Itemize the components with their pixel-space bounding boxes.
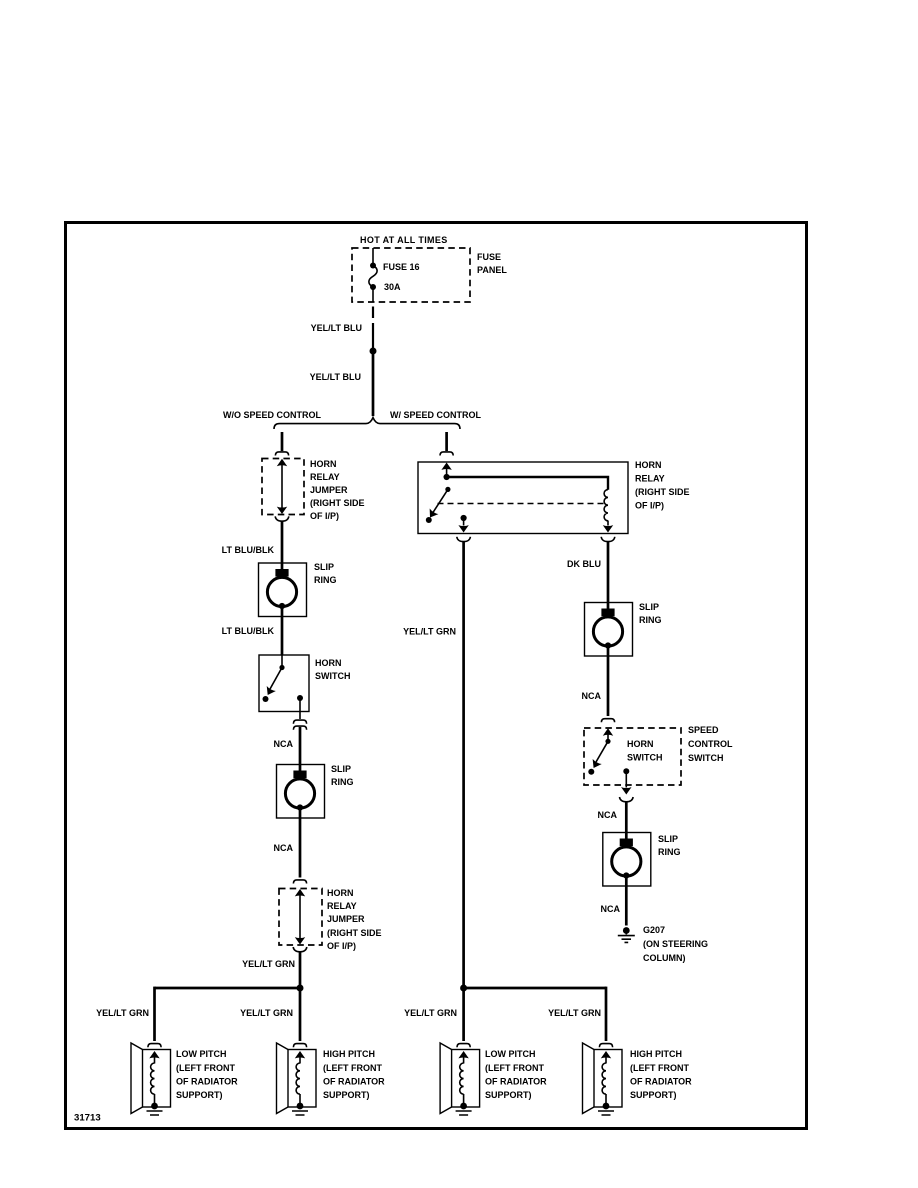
svg-text:JUMPER: JUMPER (327, 914, 365, 924)
fuse panel dashed box (352, 248, 470, 302)
horn switch contacts (281, 655, 283, 667)
relay coil (604, 490, 608, 521)
horn relay jumper 2 arrow (295, 889, 305, 896)
connector female above horn 2 (293, 1044, 306, 1048)
svg-text:(RIGHT SIDE: (RIGHT SIDE (327, 928, 382, 938)
svg-text:SPEED: SPEED (688, 725, 719, 735)
wire distribution right (464, 987, 606, 990)
horn relay input pin arrow (441, 463, 451, 470)
svg-text:DK BLU: DK BLU (567, 559, 601, 569)
svg-text:(RIGHT SIDE: (RIGHT SIDE (635, 487, 690, 497)
wire drop horn 4 (605, 987, 608, 1041)
svg-text:SLIP: SLIP (314, 562, 334, 572)
svg-text:SLIP: SLIP (331, 764, 351, 774)
wire NCA 2 (299, 818, 302, 878)
svg-text:YEL/LT GRN: YEL/LT GRN (403, 627, 456, 637)
wire drop horn 2 (299, 988, 302, 1041)
svg-text:SUPPORT): SUPPORT) (630, 1090, 677, 1100)
node relay common (444, 474, 450, 480)
horn 4 high pitch (583, 1043, 623, 1115)
svg-text:NCA: NCA (601, 904, 621, 914)
node splice left horns (297, 985, 304, 992)
horn switch box (259, 655, 309, 712)
connector female below relay coil (601, 537, 615, 542)
connector female above horn 4 (599, 1044, 612, 1048)
svg-text:RING: RING (314, 575, 337, 585)
svg-text:(ON STEERING: (ON STEERING (643, 939, 708, 949)
svg-text:SUPPORT): SUPPORT) (176, 1090, 223, 1100)
relay switch blade (445, 487, 450, 492)
svg-text:G207: G207 (643, 925, 665, 935)
wire drop horn 3 (462, 988, 465, 1041)
connector female above horn relay jumper 2 (293, 880, 306, 884)
svg-text:YEL/LT GRN: YEL/LT GRN (404, 1008, 457, 1018)
wire YEL/LT GRN to splice (299, 952, 302, 988)
svg-text:RING: RING (331, 777, 354, 787)
wire NCA 4 (625, 802, 628, 833)
svg-text:SLIP: SLIP (639, 602, 659, 612)
svg-text:YEL/LT GRN: YEL/LT GRN (548, 1008, 601, 1018)
slip ring (w/o speed control upper) (259, 563, 307, 617)
svg-text:W/ SPEED CONTROL: W/ SPEED CONTROL (390, 410, 482, 420)
svg-text:(LEFT FRONT: (LEFT FRONT (323, 1063, 382, 1073)
wire distribution left (155, 987, 301, 990)
connector female below speed control switch (620, 797, 634, 802)
speed control horn switch contacts (603, 728, 613, 735)
connector female below relay output (457, 537, 471, 542)
svg-text:LT BLU/BLK: LT BLU/BLK (222, 545, 275, 555)
svg-text:LT BLU/BLK: LT BLU/BLK (222, 626, 275, 636)
svg-text:(RIGHT SIDE: (RIGHT SIDE (310, 498, 365, 508)
svg-text:JUMPER: JUMPER (310, 485, 348, 495)
svg-text:OF RADIATOR: OF RADIATOR (323, 1077, 385, 1087)
horn relay box (418, 462, 628, 534)
svg-text:RING: RING (658, 847, 681, 857)
svg-text:CONTROL: CONTROL (688, 739, 733, 749)
svg-text:30A: 30A (384, 282, 401, 292)
ground G207 (623, 927, 630, 934)
wire YEL/LT BLU feed (372, 354, 375, 416)
svg-text:SWITCH: SWITCH (315, 671, 351, 681)
svg-text:OF RADIATOR: OF RADIATOR (485, 1077, 547, 1087)
svg-text:RING: RING (639, 615, 662, 625)
svg-text:OF I/P): OF I/P) (310, 511, 339, 521)
speed control switch dashed box (584, 728, 681, 785)
horn 1 low pitch (131, 1043, 171, 1115)
wire NCA 5 (625, 886, 628, 926)
connector female above horn relay jumper (275, 452, 288, 456)
wire NCA 3 (607, 656, 610, 716)
svg-text:PANEL: PANEL (477, 265, 507, 275)
wire DK BLU (607, 542, 610, 603)
svg-text:COLUMN): COLUMN) (643, 953, 686, 963)
wire LT BLU/BLK 2 (281, 617, 284, 656)
connector female above horn 1 (148, 1044, 161, 1048)
svg-text:(LEFT FRONT: (LEFT FRONT (176, 1063, 235, 1073)
svg-text:FUSE 16: FUSE 16 (383, 262, 420, 272)
brace split W/O and W/ speed control (274, 418, 460, 429)
svg-text:LOW PITCH: LOW PITCH (176, 1049, 227, 1059)
svg-text:SUPPORT): SUPPORT) (485, 1090, 532, 1100)
svg-text:OF I/P): OF I/P) (635, 501, 664, 511)
wire drop horn 1 (153, 987, 156, 1041)
horn 3 low pitch (440, 1043, 480, 1115)
wire NCA (299, 727, 302, 765)
outer frame (66, 223, 807, 1129)
wire dashed below fuse panel (372, 307, 374, 319)
svg-text:HIGH PITCH: HIGH PITCH (630, 1049, 682, 1059)
wire into fuse (372, 248, 374, 265)
svg-text:YEL/LT BLU: YEL/LT BLU (311, 323, 362, 333)
connector pair below horn switch (293, 720, 306, 724)
connector female below horn relay jumper (275, 516, 289, 521)
horn relay jumper 2 dashed box (279, 889, 322, 946)
svg-text:OF RADIATOR: OF RADIATOR (630, 1077, 692, 1087)
svg-text:HOT AT ALL TIMES: HOT AT ALL TIMES (360, 235, 448, 245)
svg-text:SWITCH: SWITCH (688, 753, 724, 763)
svg-text:SLIP: SLIP (658, 834, 678, 844)
svg-text:W/O SPEED CONTROL: W/O SPEED CONTROL (223, 410, 322, 420)
svg-text:HORN: HORN (327, 888, 354, 898)
svg-text:HORN: HORN (635, 460, 662, 470)
svg-text:NCA: NCA (274, 843, 294, 853)
relay linkage dashed line (438, 503, 604, 505)
wire w/ speed control drop (445, 432, 448, 451)
connector female below horn relay jumper 2 (293, 947, 307, 952)
svg-text:OF I/P): OF I/P) (327, 941, 356, 951)
horn 2 high pitch (277, 1043, 317, 1115)
node splice junction (370, 348, 377, 355)
svg-text:HORN: HORN (627, 739, 654, 749)
slip ring (w/o speed control lower) (277, 765, 325, 819)
node splice right horns (460, 985, 467, 992)
connector female above speed control switch (601, 719, 614, 723)
svg-text:YEL/LT GRN: YEL/LT GRN (242, 959, 295, 969)
wire YEL/LT GRN long middle (462, 542, 465, 988)
wire LT BLU/BLK (281, 522, 284, 564)
fuse FUSE 16 30A (370, 263, 376, 269)
svg-text:NCA: NCA (274, 739, 294, 749)
svg-text:31713: 31713 (74, 1113, 101, 1124)
svg-text:YEL/LT BLU: YEL/LT BLU (310, 372, 361, 382)
svg-text:(LEFT FRONT: (LEFT FRONT (630, 1063, 689, 1073)
svg-text:NCA: NCA (598, 810, 618, 820)
svg-text:NCA: NCA (582, 691, 602, 701)
wire left branch drop (281, 432, 284, 451)
slip ring (w/ speed control upper) (585, 603, 633, 657)
connector female above horn relay (440, 452, 453, 456)
connector female above horn 3 (457, 1044, 470, 1048)
svg-text:RELAY: RELAY (327, 901, 357, 911)
svg-text:FUSE: FUSE (477, 252, 501, 262)
svg-text:YEL/LT GRN: YEL/LT GRN (96, 1008, 149, 1018)
wire relay bus to coil (447, 477, 608, 490)
horn relay jumper arrow (277, 459, 287, 466)
svg-text:(LEFT FRONT: (LEFT FRONT (485, 1063, 544, 1073)
svg-text:RELAY: RELAY (635, 474, 665, 484)
svg-text:SUPPORT): SUPPORT) (323, 1090, 370, 1100)
svg-text:SWITCH: SWITCH (627, 753, 663, 763)
svg-text:HIGH PITCH: HIGH PITCH (323, 1049, 375, 1059)
horn relay jumper dashed box (262, 459, 304, 515)
svg-text:HORN: HORN (310, 459, 337, 469)
connector pin arrow below speed control switch (621, 787, 631, 794)
svg-text:OF RADIATOR: OF RADIATOR (176, 1077, 238, 1087)
svg-text:RELAY: RELAY (310, 472, 340, 482)
svg-text:YEL/LT GRN: YEL/LT GRN (240, 1008, 293, 1018)
svg-text:LOW PITCH: LOW PITCH (485, 1049, 536, 1059)
slip ring (w/ speed control lower) (603, 833, 651, 887)
svg-text:HORN: HORN (315, 658, 342, 668)
relay output contact (461, 515, 467, 521)
